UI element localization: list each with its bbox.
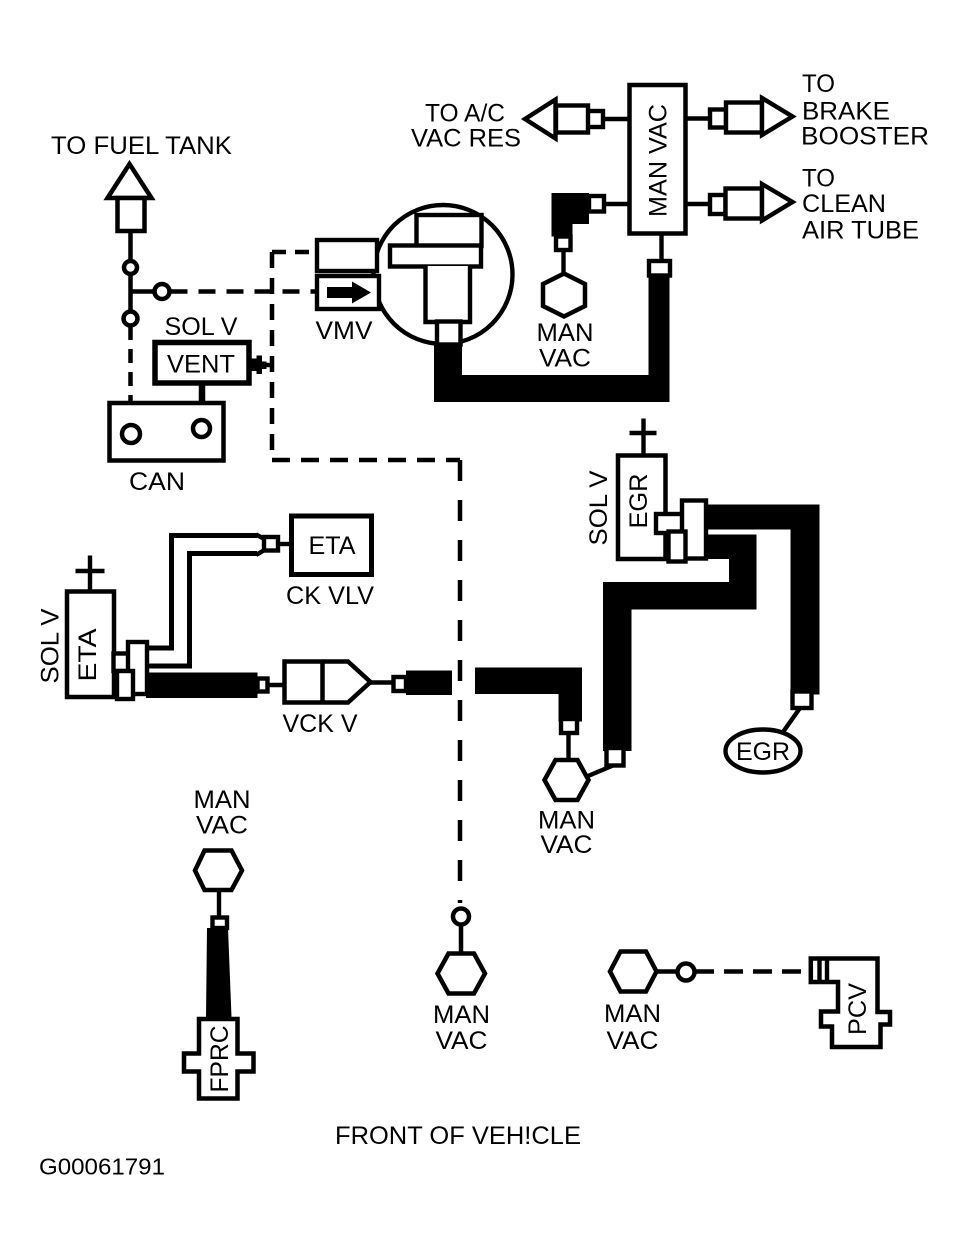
- svg-text:PCV: PCV: [844, 983, 872, 1035]
- svg-text:VCK V: VCK V: [283, 710, 358, 738]
- svg-text:SOL V: SOL V: [37, 608, 65, 683]
- svg-text:MAN: MAN: [604, 1000, 661, 1028]
- svg-text:CAN: CAN: [129, 468, 185, 496]
- node circle upper: [124, 261, 137, 274]
- check valve VCK V body: [285, 662, 371, 703]
- svg-text:FRONT OF VEH!CLE: FRONT OF VEH!CLE: [335, 1122, 581, 1150]
- VMV bottom connector: [437, 322, 461, 345]
- ETA connector step lower: [117, 671, 133, 699]
- wire VCK apex right: [371, 680, 395, 684]
- wire to hexagon right: [588, 766, 613, 777]
- VCK V divider: [320, 662, 325, 703]
- elbow connector black: [552, 193, 590, 237]
- svg-text:TO A/C: TO A/C: [425, 100, 505, 128]
- node circle right: [155, 284, 170, 299]
- VMV lower port: [317, 276, 379, 309]
- node circle center column: [453, 909, 469, 925]
- svg-text:SOL V: SOL V: [165, 313, 238, 341]
- PCV input ribs: [817, 959, 821, 982]
- svg-text:BOOSTER: BOOSTER: [801, 123, 929, 151]
- FPRC top square: [213, 918, 228, 929]
- fuel tank arrow head: [108, 164, 152, 198]
- elbow bottom square: [556, 237, 571, 251]
- wire to A/C connector: [603, 117, 630, 121]
- hose VMV black horizontal: [434, 375, 670, 402]
- svg-text:TO: TO: [802, 165, 835, 193]
- wire junction horizontal: [129, 289, 155, 294]
- svg-text:MAN: MAN: [194, 786, 251, 814]
- svg-text:TO FUEL TANK: TO FUEL TANK: [51, 132, 232, 160]
- A/C connector barrel: [556, 106, 588, 133]
- tube taper lines: [256, 535, 265, 540]
- canister CAN box: [110, 403, 224, 461]
- A/C connector square: [588, 111, 604, 127]
- svg-text:CK VLV: CK VLV: [286, 582, 374, 610]
- clean air connector barrel: [726, 189, 763, 219]
- EGR connector step lower: [669, 532, 686, 562]
- VMV valve bar: [390, 246, 481, 267]
- manifold MAN VAC box: [630, 85, 686, 234]
- wire to EGR oval: [783, 708, 800, 732]
- tube end square: [264, 537, 278, 551]
- EGR connector step upper: [656, 514, 684, 533]
- EGR hose end connector: [793, 692, 812, 709]
- svg-text:EGR: EGR: [625, 474, 653, 529]
- svg-text:VMV: VMV: [316, 317, 373, 345]
- wire plug to dashed line: [267, 363, 275, 367]
- EGR oval: [726, 730, 801, 773]
- svg-text:VAC: VAC: [436, 1027, 488, 1055]
- svg-text:VAC RES: VAC RES: [411, 125, 521, 153]
- check valve ETA box: [292, 516, 372, 575]
- svg-text:ETA: ETA: [74, 628, 102, 681]
- wire down to hexagon: [566, 733, 570, 760]
- wire connector to MAN VAC box: [659, 234, 663, 263]
- brake booster connector barrel: [726, 103, 762, 133]
- wire square to ETA box: [278, 542, 292, 546]
- hose VMV black down: [434, 342, 462, 378]
- VMV valve stem: [426, 266, 471, 322]
- svg-text:BRAKE: BRAKE: [802, 98, 890, 126]
- brake booster connector square: [710, 110, 726, 128]
- clean air connector square: [710, 195, 726, 214]
- svg-text:FPRC: FPRC: [206, 1026, 234, 1093]
- node MAN VAC hexagon bottom center: [438, 954, 486, 994]
- fuel tank arrow stem: [118, 198, 145, 231]
- VENT connector plug: [249, 359, 257, 372]
- svg-text:TO: TO: [802, 70, 835, 98]
- svg-text:VAC: VAC: [196, 812, 248, 840]
- brake booster arrow right: [762, 98, 793, 135]
- hose VCK to hexagon black: [475, 668, 582, 695]
- node circle PCV: [678, 964, 695, 981]
- wire elbow to MAN VAC box: [604, 202, 630, 206]
- hose VENT to CAN: [199, 383, 206, 426]
- svg-text:AIR TUBE: AIR TUBE: [802, 217, 919, 245]
- wire circle to hexagon: [459, 925, 464, 954]
- ETA tube inner white: [146, 545, 257, 658]
- solenoid EGR box: [618, 456, 666, 560]
- wire junction vertical: [128, 274, 133, 312]
- node circle lower: [124, 312, 138, 326]
- VMV port arrow: [327, 282, 371, 304]
- ETA connector step upper: [114, 654, 131, 672]
- EGR lower hose end connector: [607, 748, 624, 766]
- CAN port left: [122, 425, 140, 443]
- wire hexagon to square: [217, 890, 221, 918]
- node MAN VAC hexagon middle: [545, 760, 589, 800]
- svg-text:SOL V: SOL V: [585, 470, 613, 545]
- CAN port right: [193, 420, 210, 437]
- EGR solenoid cross: [641, 419, 645, 456]
- hose FPRC black: [206, 928, 232, 1017]
- node MAN VAC hexagon FPRC: [195, 851, 242, 891]
- svg-text:VAC: VAC: [607, 1027, 659, 1055]
- wire to brake booster connector: [686, 116, 710, 120]
- clean air arrow right: [762, 184, 793, 221]
- dashed hose junction to VMV lower port: [171, 289, 318, 294]
- svg-text:MAN: MAN: [433, 1001, 490, 1029]
- hose ETA to VCK black: [146, 673, 258, 699]
- VMV top port: [317, 240, 377, 271]
- hose end square: [258, 679, 268, 692]
- hose EGR upper black right: [704, 505, 820, 530]
- hose EGR right vertical: [791, 505, 820, 695]
- wire elbow to hexagon: [561, 250, 565, 274]
- valve PCV body: [811, 959, 890, 1048]
- svg-text:G00061791: G00061791: [39, 1154, 165, 1180]
- bracket square: [394, 677, 407, 691]
- svg-text:VAC: VAC: [539, 345, 591, 373]
- hose black short: [406, 671, 452, 696]
- dashed center column down: [458, 460, 463, 903]
- dashed line vertical x272: [270, 252, 275, 459]
- hose top connector: [649, 261, 670, 276]
- regulator FPRC body: [184, 1019, 254, 1099]
- dashed segment to VMV top port: [272, 250, 317, 255]
- solenoid VENT box: [155, 343, 249, 384]
- dashed corner to center column: [272, 458, 460, 463]
- ETA tube to check valve outer: [146, 545, 257, 658]
- EGR connector main bar: [682, 501, 706, 559]
- valve VMV circle: [374, 205, 513, 344]
- wire stem to node: [128, 231, 133, 262]
- ETA solenoid cross: [88, 556, 92, 593]
- wire to clean air tube connector: [686, 202, 710, 206]
- A/C arrow left: [525, 100, 556, 139]
- solenoid ETA box: [67, 592, 114, 698]
- ETA connector main bar: [128, 642, 147, 694]
- wire hexagon to circle: [657, 969, 679, 974]
- dashed hose to PCV: [695, 969, 808, 974]
- svg-text:VENT: VENT: [167, 351, 235, 379]
- svg-text:MAN VAC: MAN VAC: [645, 104, 673, 217]
- hose VMV black up right: [649, 274, 670, 402]
- svg-text:CLEAN: CLEAN: [802, 190, 886, 218]
- VMV valve cap: [417, 215, 482, 246]
- svg-text:EGR: EGR: [736, 738, 790, 766]
- svg-text:VAC: VAC: [541, 831, 593, 859]
- hose end connector above hexagon: [561, 719, 577, 733]
- hose EGR lower black: [704, 535, 757, 560]
- dashed hose down to CAN: [128, 326, 133, 404]
- wire to VCK V: [268, 683, 285, 687]
- node MAN VAC hexagon top middle: [543, 274, 585, 317]
- svg-text:ETA: ETA: [309, 532, 356, 560]
- elbow right square: [589, 196, 604, 212]
- svg-text:MAN: MAN: [537, 319, 594, 347]
- node MAN VAC hexagon PCV: [610, 952, 657, 992]
